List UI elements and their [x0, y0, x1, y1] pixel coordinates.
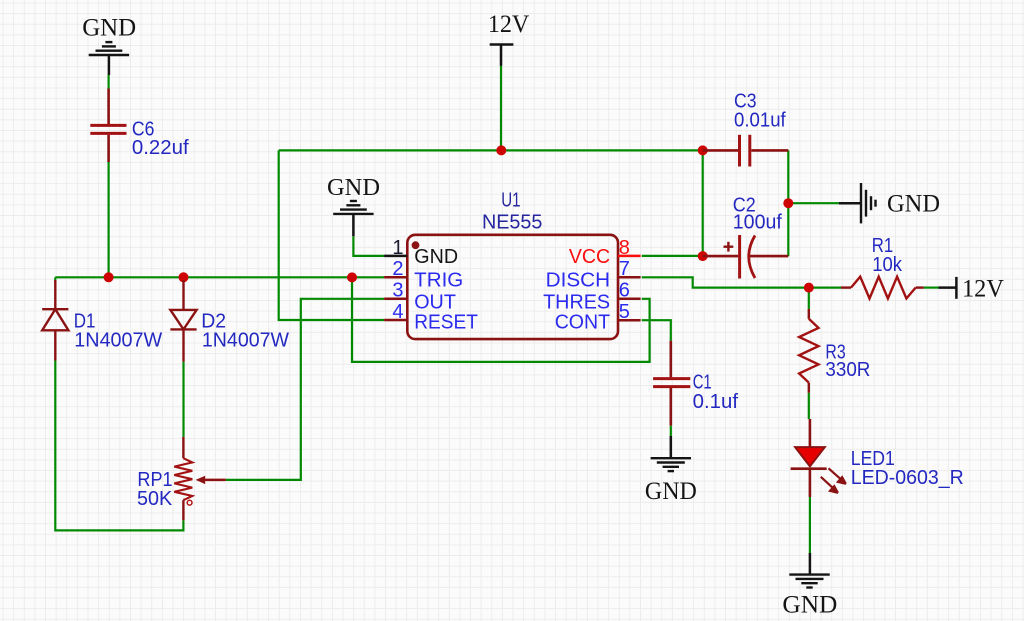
- op-amp U1 NE555 body: [407, 235, 618, 339]
- wire C1 to GND: [670, 426, 672, 436]
- wire GND stem pin1: [352, 214, 355, 236]
- node junction 12V: [496, 145, 506, 155]
- svg-text:LED-0603_R: LED-0603_R: [851, 467, 964, 489]
- node junction VCC/C2: [698, 251, 708, 261]
- power flag 12V right: [939, 277, 957, 299]
- svg-text:TRIG: TRIG: [414, 269, 463, 291]
- ground flag LED: [789, 575, 829, 588]
- wire C6 bottom: [107, 162, 109, 277]
- resistor R1 body: [851, 277, 916, 299]
- svg-text:8: 8: [619, 237, 630, 259]
- wire GND stem right: [839, 202, 861, 205]
- svg-text:GND: GND: [645, 478, 697, 505]
- svg-text:RESET: RESET: [414, 312, 478, 334]
- diode D1: [42, 280, 68, 361]
- svg-text:1N4007W: 1N4007W: [74, 329, 162, 351]
- svg-text:1N4007W: 1N4007W: [202, 329, 289, 351]
- wire R3 top: [808, 288, 810, 309]
- wire GND stem LED: [809, 553, 812, 575]
- wire D1 to RP1 bottom: [55, 361, 183, 531]
- pin 3 lead: [384, 298, 407, 301]
- pin 7 lead: [618, 276, 641, 279]
- svg-text:0.01uf: 0.01uf: [734, 110, 786, 132]
- wire LED to GND: [809, 497, 811, 553]
- svg-text:THRES: THRES: [543, 291, 610, 313]
- ground flag right: [861, 183, 876, 223]
- wire VCC pin8: [642, 255, 703, 257]
- svg-text:2: 2: [392, 258, 403, 280]
- wire GND stem C6: [108, 55, 111, 75]
- svg-text:10k: 10k: [872, 254, 903, 276]
- node junction GND right: [783, 198, 793, 208]
- diode D2: [170, 280, 196, 362]
- wire OUT net: [226, 299, 384, 480]
- svg-text:12V: 12V: [488, 11, 530, 38]
- ground flag C6: [89, 42, 129, 55]
- svg-text:CONT: CONT: [555, 312, 610, 334]
- pin 8 lead: [618, 255, 641, 258]
- pin 1 marker dot: [412, 241, 420, 249]
- wire C6 top stub: [107, 75, 109, 89]
- svg-text:VCC: VCC: [569, 246, 610, 268]
- power flag 12V top: [490, 45, 514, 66]
- node junction TRIG: [347, 272, 357, 282]
- capacitor C6: [107, 89, 110, 163]
- svg-text:0.22uf: 0.22uf: [132, 137, 189, 159]
- wire D2 to RP1: [182, 362, 184, 437]
- svg-text:GND: GND: [782, 592, 837, 619]
- potentiometer RP1 leads: [182, 437, 184, 520]
- wire R1 to 12V: [924, 287, 939, 289]
- potentiometer RP1 body: [174, 458, 192, 500]
- svg-text:5: 5: [619, 301, 630, 323]
- potentiometer RP1 terminal circle: [187, 500, 192, 505]
- wire R3 to LED: [808, 393, 810, 419]
- wire VCC top rail: [279, 149, 703, 151]
- wire C3 right vertical: [787, 150, 789, 256]
- ground flag C1: [651, 458, 691, 471]
- pin 4 lead: [384, 319, 407, 322]
- svg-text:OUT: OUT: [414, 291, 456, 313]
- svg-text:NE555: NE555: [482, 212, 543, 234]
- C2 plus sign: [724, 242, 734, 252]
- capacitor C2 polarized: [703, 255, 789, 258]
- node junction C6/TRIG: [104, 272, 114, 282]
- resistor R3 leads: [808, 309, 810, 393]
- svg-text:GND: GND: [887, 191, 940, 218]
- wire GND stem C1: [670, 436, 673, 458]
- pin 5 lead: [618, 319, 641, 322]
- svg-text:DISCH: DISCH: [546, 269, 610, 291]
- wire TRIG-THRES net: [352, 277, 650, 362]
- svg-text:0.1uf: 0.1uf: [693, 391, 739, 413]
- wire D1 top stub: [54, 277, 56, 282]
- node junction R1/R3: [804, 283, 814, 293]
- resistor R3 body: [799, 319, 818, 383]
- pin 2 lead: [384, 276, 407, 279]
- svg-text:GND: GND: [82, 15, 136, 42]
- svg-text:GND: GND: [414, 246, 458, 268]
- wire RESET net: [279, 150, 384, 320]
- wire TRIG net horizontal: [55, 276, 384, 278]
- pin 1 lead: [384, 255, 407, 258]
- wire VCC vertical: [702, 150, 704, 256]
- svg-text:50K: 50K: [137, 488, 173, 510]
- potentiometer RP1 wiper arrow: [204, 479, 226, 482]
- svg-text:GND: GND: [327, 175, 380, 201]
- LED1 emission arrows: [821, 468, 846, 493]
- svg-text:3: 3: [392, 280, 403, 302]
- svg-text:330R: 330R: [825, 359, 870, 381]
- svg-text:100uf: 100uf: [733, 211, 782, 233]
- wire to GND flag right: [788, 202, 839, 204]
- svg-text:U1: U1: [501, 190, 520, 212]
- LED LED1: [809, 419, 812, 447]
- wire D2 top stub: [182, 277, 184, 282]
- wire DISCH net: [642, 277, 841, 287]
- svg-text:4: 4: [392, 301, 403, 323]
- node junction D2/TRIG: [179, 272, 189, 282]
- ground flag pin1: [333, 201, 373, 214]
- svg-text:1: 1: [392, 237, 403, 259]
- wire 12V drop: [500, 66, 502, 150]
- svg-text:6: 6: [619, 280, 630, 302]
- pin 6 lead: [618, 298, 641, 301]
- capacitor C1: [669, 341, 672, 426]
- resistor R1 leads: [841, 286, 924, 288]
- node junction C3 left: [698, 145, 708, 155]
- svg-text:7: 7: [619, 258, 630, 280]
- wire CONT to C1: [642, 320, 671, 341]
- capacitor C3: [703, 149, 789, 152]
- wire GND to pin1: [353, 236, 384, 256]
- svg-text:12V: 12V: [962, 276, 1004, 303]
